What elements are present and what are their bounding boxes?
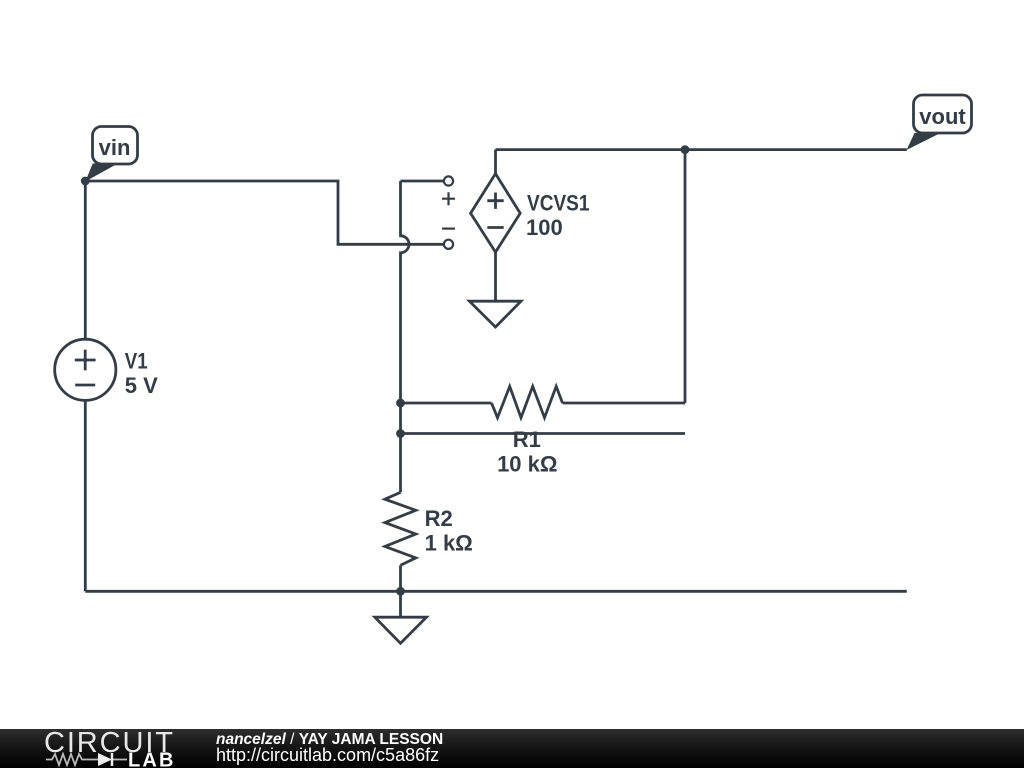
wire vin horizontal top (85, 181, 443, 244)
wire lower horizontal y433 (401, 432, 686, 435)
VCVS1 diamond (471, 174, 521, 253)
junction dot ground rail (396, 587, 405, 596)
svg-text:LAB: LAB (128, 750, 176, 768)
wire ground rail bottom (85, 590, 907, 593)
terminal minus sign (442, 228, 455, 230)
svg-text:VCVS1: VCVS1 (527, 191, 590, 216)
vin flag box (93, 127, 138, 165)
VCVS1 minus sign (487, 226, 503, 229)
svg-text:V1: V1 (125, 349, 148, 374)
ground symbol bottom (375, 617, 427, 643)
CircuitLab logo (40, 729, 185, 768)
svg-text:R1: R1 (513, 427, 541, 452)
vout flag pointer (907, 133, 941, 150)
svg-text:5 V: 5 V (125, 373, 158, 398)
wire vout top (496, 148, 907, 151)
svg-text:1 kΩ: 1 kΩ (425, 531, 473, 556)
vin flag pointer (85, 163, 116, 181)
footer line 2 (216, 746, 439, 764)
svg-text:100: 100 (526, 215, 563, 240)
VCVS1 plus sign (487, 193, 503, 209)
svg-text:R2: R2 (425, 506, 453, 531)
V1 plus sign (75, 350, 96, 371)
junction dot R1 node (396, 399, 405, 408)
svg-text:vin: vin (99, 135, 131, 160)
VCVS input terminal - circle (444, 240, 453, 249)
voltage source V1 circle (55, 339, 116, 400)
ground symbol under VCVS1 (469, 301, 521, 327)
wire vertical right x685 (684, 150, 687, 403)
wire ground stub R2 (399, 591, 402, 617)
junction dot vin (81, 177, 90, 186)
V1 minus sign (75, 384, 95, 387)
svg-text:10 kΩ: 10 kΩ (497, 452, 557, 477)
wire R1 left stub (401, 402, 492, 405)
junction dot vout branch (681, 145, 690, 154)
vout flag box (914, 95, 972, 133)
footer bar (0, 729, 1024, 768)
resistor R1 zigzag (492, 386, 563, 417)
wire vertical with hop at crossing (401, 181, 410, 492)
resistor R2 zigzag (385, 492, 416, 565)
wire R2 bottom to ground rail (399, 565, 402, 591)
VCVS1 stub top (494, 150, 497, 174)
wire V1 vertical top (84, 181, 87, 340)
wire R1 right stub (563, 402, 686, 405)
terminal plus sign (442, 192, 455, 205)
junction dot lower node (396, 429, 405, 438)
VCVS1 stub bottom (494, 252, 497, 301)
footer line 1 (216, 732, 443, 748)
svg-text:vout: vout (919, 104, 966, 129)
wire from vertical to + terminal (401, 180, 444, 183)
wire V1 vertical bottom (84, 400, 87, 591)
VCVS input terminal + circle (444, 176, 453, 185)
